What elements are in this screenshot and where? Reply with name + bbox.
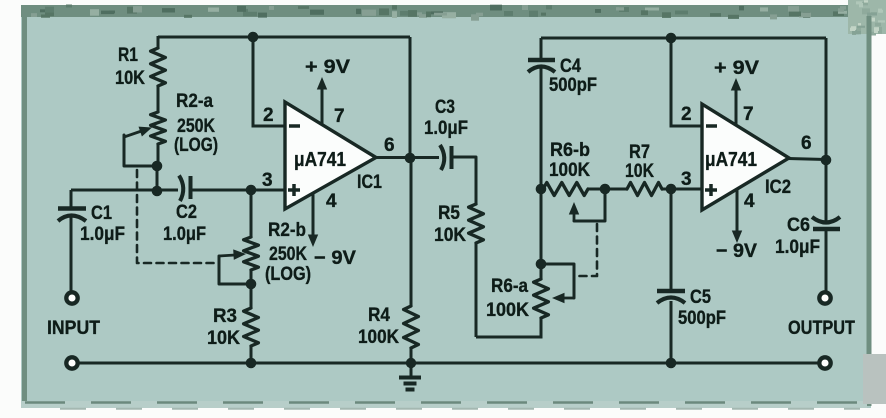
capacitor C4: [528, 58, 555, 63]
node: R6-a top junction: [536, 259, 547, 270]
node: top rail / pin2 IC2: [666, 33, 677, 44]
IC2 +9V supply arrow pin 7: [735, 87, 738, 125]
wire: C6 top lead: [825, 160, 828, 221]
svg-text:7: 7: [334, 106, 345, 127]
resistor R3: [244, 308, 259, 346]
svg-text:μA741: μA741: [294, 149, 346, 171]
wire: R5 column to R6-a bottom: [476, 336, 541, 339]
INPUT ground terminal: [66, 357, 77, 368]
node: ground bus R4: [406, 358, 416, 368]
INPUT signal terminal: [66, 292, 77, 303]
svg-text:1.0μF: 1.0μF: [424, 117, 468, 139]
op-amp IC2 triangle: [702, 104, 789, 210]
wire: R2-b bottom to junction: [250, 270, 253, 285]
wire: pin 3 stub IC1: [251, 189, 285, 192]
wire: ground bus: [71, 362, 825, 365]
mottled top-right corner patch: [848, 0, 886, 34]
bottom light band: [21, 401, 867, 408]
R2-b wiper return: [219, 256, 249, 284]
svg-text:R6-a: R6-a: [491, 275, 528, 297]
svg-text:C3: C3: [435, 96, 455, 118]
wire: C5 top lead: [670, 189, 673, 289]
node: R2-a bottom junction: [152, 161, 163, 172]
wire: node to R2-b top: [250, 190, 253, 237]
resistor R4: [404, 306, 419, 348]
IC1 non-inverting input plus sign: [288, 188, 300, 192]
wire: R6-b to R7 segment: [588, 188, 627, 191]
svg-text:100K: 100K: [486, 299, 529, 321]
wire: R2-a bottom to signal rail: [156, 166, 159, 191]
wire: C5 bottom lead to ground bus: [670, 301, 673, 363]
node: signal rail / R2 column: [152, 186, 163, 197]
wire: IC1 output vertical to top rail: [409, 37, 412, 158]
svg-text:3: 3: [681, 169, 692, 190]
svg-text:1.0μF: 1.0μF: [80, 223, 125, 245]
svg-text:7: 7: [743, 104, 754, 125]
wire: R6-a top lead to junction: [540, 264, 543, 279]
wire: C4 bottom long lead: [540, 68, 543, 189]
wire: junction down from R6-b left node: [540, 189, 543, 264]
node: R2-b bottom junction: [246, 279, 257, 290]
svg-text:(LOG): (LOG): [265, 263, 311, 285]
svg-text:C2: C2: [176, 201, 197, 223]
capacitor C1: [70, 190, 73, 207]
wire: R3 bottom to ground bus: [250, 346, 253, 363]
R2-a wiper arrow: [124, 131, 143, 138]
R6-b wiper arrow: [573, 213, 576, 221]
svg-text:OUTPUT: OUTPUT: [788, 317, 855, 339]
wire: IC2 output vertical to top rail: [825, 38, 828, 160]
svg-text:500pF: 500pF: [678, 307, 726, 329]
svg-text:R4: R4: [368, 304, 390, 326]
ground symbol: [410, 363, 413, 377]
svg-text:1.0μF: 1.0μF: [775, 236, 820, 258]
capacitor C5: [657, 289, 685, 294]
svg-text:INPUT: INPUT: [47, 317, 100, 339]
svg-text:− 9V: − 9V: [314, 247, 356, 269]
IC1 +9V supply arrow pin 7: [321, 86, 324, 124]
resistor R7: [627, 183, 662, 196]
svg-text:R2-a: R2-a: [176, 90, 213, 112]
svg-text:R1: R1: [118, 44, 138, 66]
node: R6-b right wiper: [600, 184, 611, 195]
svg-text:C6: C6: [787, 214, 810, 236]
left panel edge shading: [22, 5, 27, 408]
svg-text:− 9V: − 9V: [716, 240, 757, 262]
R6-a wiper arrow: [563, 297, 574, 300]
potentiometer R6-a: [534, 279, 549, 318]
node: ground bus R3: [246, 358, 257, 369]
svg-text:R5: R5: [438, 202, 460, 224]
node: R6-b left / C4: [536, 184, 547, 195]
wire: R7 to pin 3 IC2: [662, 188, 702, 191]
wire: R2-a bottom lead: [157, 143, 160, 167]
svg-text:R6-b: R6-b: [550, 139, 590, 161]
node: R7 right / C5 / pin 3 IC2: [666, 184, 677, 195]
capacitor C3: [440, 145, 444, 170]
IC1 -9V supply arrow pin 4: [312, 192, 315, 237]
svg-text:10K: 10K: [115, 67, 145, 89]
resistor R5: [469, 204, 484, 243]
svg-text:6: 6: [801, 133, 812, 154]
gray scan patch bottom-right margin: [863, 354, 886, 404]
R2-a wiper return: [124, 135, 155, 166]
svg-text:IC1: IC1: [357, 172, 382, 193]
wire: pin 2 stub IC1: [253, 125, 285, 128]
svg-text:2: 2: [681, 104, 692, 125]
svg-text:100K: 100K: [549, 159, 590, 181]
IC2 non-inverting input plus sign: [705, 188, 717, 192]
capacitor C2: [179, 176, 183, 202]
op-amp IC1 triangle: [285, 102, 376, 209]
potentiometer R2-a: [151, 112, 166, 144]
wire: signal rail C2 to pin 3 node: [192, 189, 251, 192]
svg-text:2: 2: [263, 105, 274, 126]
right panel edge shading: [867, 16, 872, 406]
capacitor C6: [812, 217, 840, 223]
svg-text:C1: C1: [91, 202, 112, 224]
svg-text:10K: 10K: [434, 224, 466, 246]
svg-text:4: 4: [744, 191, 755, 212]
svg-text:1.0μF: 1.0μF: [163, 223, 206, 245]
node: top rail / pin2 IC1: [248, 32, 259, 43]
R6-a wiper return: [543, 264, 574, 298]
svg-text:6: 6: [384, 135, 395, 156]
wire: R5 bottom down: [475, 243, 478, 337]
svg-text:R3: R3: [213, 305, 237, 327]
svg-text:+ 9V: + 9V: [714, 57, 759, 79]
svg-text:3: 3: [262, 170, 273, 191]
wire: R1 top lead: [157, 36, 160, 49]
svg-text:+ 9V: + 9V: [305, 56, 350, 78]
OUTPUT signal terminal: [819, 292, 830, 303]
potentiometer R2-b: [244, 237, 259, 270]
svg-text:(LOG): (LOG): [174, 134, 218, 156]
svg-text:10K: 10K: [625, 160, 654, 182]
IC1 inverting input minus sign: [289, 124, 300, 128]
wire: C4 top lead: [540, 38, 543, 58]
wire: R4 column from output node: [410, 158, 413, 306]
IC2 inverting input minus sign: [706, 124, 717, 128]
wire: junction to R3 top: [250, 284, 253, 308]
dashed gang link R2-a to R2-b: [137, 170, 216, 263]
svg-text:10K: 10K: [207, 327, 240, 349]
dashed gang link R6-b to R6-a: [576, 224, 597, 276]
resistor R1: [151, 48, 166, 86]
svg-text:4: 4: [326, 191, 337, 212]
node: pin 3 IC1: [246, 185, 257, 196]
IC2 -9V supply arrow pin 4: [736, 190, 739, 233]
wire: R1 to R2-a lead: [157, 85, 160, 113]
svg-text:250K: 250K: [269, 243, 307, 265]
svg-text:μA741: μA741: [705, 149, 757, 171]
wire: input signal rail left of C2: [71, 189, 178, 192]
wire: pin2 vertical drop IC2: [670, 38, 673, 128]
wire: IC2 feedback top rail: [541, 37, 826, 40]
svg-text:100K: 100K: [358, 326, 399, 348]
wire: IC2 output to node: [788, 159, 826, 160]
wire: pin2 vertical drop IC1: [252, 37, 255, 128]
svg-text:IC2: IC2: [765, 177, 791, 198]
svg-text:500pF: 500pF: [549, 74, 597, 96]
R6-b wiper return: [574, 190, 605, 221]
OUTPUT ground terminal: [819, 357, 830, 368]
node: IC1 output: [405, 153, 416, 164]
node: ground bus C5: [666, 358, 677, 369]
wire: C3 to R5 corner: [452, 157, 476, 204]
potentiometer R6-b: [543, 183, 588, 196]
wire: R4 bottom to ground bus: [410, 348, 413, 363]
svg-text:R2-b: R2-b: [268, 219, 306, 241]
R2-b wiper arrow: [219, 255, 235, 256]
bottom boundary broken line: [25, 401, 868, 404]
wire: R6-a bottom lead: [540, 318, 543, 339]
wire: IC1 output to C3: [375, 156, 439, 159]
node: IC2 output: [821, 155, 832, 166]
svg-text:C5: C5: [690, 286, 711, 308]
mottled darker band top edge: [21, 5, 886, 17]
wire: IC1 feedback top rail: [158, 36, 410, 39]
wire: C6 bottom lead to output terminal: [825, 231, 828, 291]
wire: pin 2 stub IC2: [671, 125, 702, 128]
